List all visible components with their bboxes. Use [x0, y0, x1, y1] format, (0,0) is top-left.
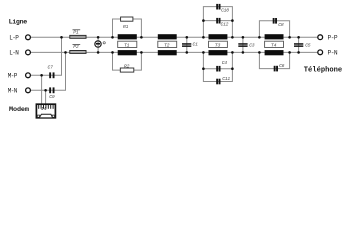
capacitor C6 loop: [259, 52, 289, 71]
svg-text:P-N: P-N: [328, 50, 338, 57]
capacitor C12 rung: [203, 18, 232, 27]
capacitor C3: [238, 37, 254, 52]
capacitor C1: [182, 37, 198, 52]
node T3 loop bottom-left: [202, 51, 205, 54]
fuse P2: [70, 44, 86, 53]
capacitor C9: [49, 87, 55, 100]
svg-text:P2: P2: [73, 44, 79, 50]
wire M-N to L-N branch: [31, 52, 66, 90]
terminal L-N: [9, 50, 30, 57]
wire M-P to L-P branch: [31, 37, 62, 75]
transformer T4: [265, 34, 284, 55]
svg-text:M-N: M-N: [8, 88, 18, 95]
node C4 left: [202, 67, 205, 70]
node C12 left: [202, 19, 205, 22]
svg-text:Modem: Modem: [9, 106, 29, 114]
svg-text:T3: T3: [215, 42, 221, 48]
svg-text:T2: T2: [164, 42, 170, 48]
capacitor C8 loop: [259, 18, 289, 37]
node C6 loop left: [258, 51, 261, 54]
terminal M-P: [8, 73, 31, 80]
wire modem pin2: [45, 90, 47, 104]
node C3 bottom: [242, 51, 245, 54]
wire modem pin1: [41, 75, 43, 104]
node R2 right: [140, 51, 143, 54]
node C1 bottom: [186, 51, 189, 54]
resistor R2: [113, 52, 142, 72]
node C12 right: [231, 19, 234, 22]
svg-text:T4: T4: [271, 42, 277, 48]
fuse P1: [70, 29, 86, 38]
node T3 loop top-right: [231, 36, 234, 39]
resistor R1: [113, 17, 142, 37]
transformer T2: [158, 34, 177, 55]
node L-N/M-N branch: [64, 51, 67, 54]
svg-text:P-P: P-P: [328, 34, 338, 41]
svg-text:R1: R1: [123, 24, 129, 30]
svg-text:T1: T1: [124, 42, 130, 48]
node modem pin2: [44, 89, 47, 92]
svg-text:C11: C11: [222, 76, 230, 82]
svg-text:C5: C5: [305, 42, 311, 48]
svg-text:C10: C10: [221, 8, 229, 14]
svg-text:C4: C4: [222, 60, 228, 66]
node R1 right: [140, 36, 143, 39]
node C3 top: [242, 36, 245, 39]
node modem pin1: [40, 74, 43, 77]
svg-text:C12: C12: [221, 21, 229, 27]
svg-text:J4: J4: [41, 106, 47, 112]
svg-text:C7: C7: [48, 64, 54, 70]
node R2 left: [111, 51, 114, 54]
node C8 right: [288, 36, 291, 39]
capacitor C4 rung: [203, 52, 232, 71]
svg-text:Téléphone: Téléphone: [304, 67, 342, 75]
svg-text:Ligne: Ligne: [9, 18, 28, 25]
svg-text:P1: P1: [73, 29, 79, 35]
svg-text:L-N: L-N: [9, 50, 19, 57]
svg-text:C3: C3: [249, 43, 255, 49]
svg-text:C1: C1: [193, 42, 199, 48]
node C4 right: [231, 67, 234, 70]
transformer T1: [118, 34, 137, 55]
node arrester top: [97, 36, 100, 39]
wire L-N bus: [31, 51, 318, 53]
terminal P-N: [318, 50, 338, 57]
terminal P-P: [318, 34, 338, 41]
terminal L-P: [9, 35, 30, 42]
transformer T3: [209, 34, 228, 55]
node C6 loop right: [288, 51, 291, 54]
node arrester bottom: [97, 51, 100, 54]
wire L-P bus: [31, 36, 318, 38]
capacitor C5: [294, 37, 311, 52]
surge arrester (gas tube): [95, 37, 105, 52]
node C5 top: [297, 36, 300, 39]
svg-text:C6: C6: [279, 63, 285, 69]
node T3 loop top-left: [202, 36, 205, 39]
node C8 left: [258, 36, 261, 39]
svg-text:M-P: M-P: [8, 73, 18, 80]
capacitor C7: [48, 64, 55, 78]
node C1 top: [186, 36, 189, 39]
capacitor C10 loop: [203, 4, 232, 37]
node T3 loop bottom-right: [231, 51, 234, 54]
svg-text:R2: R2: [124, 63, 130, 69]
svg-text:C8: C8: [278, 22, 284, 28]
node R1 left: [111, 36, 114, 39]
node L-P/M-P branch: [60, 36, 63, 39]
terminal M-N: [8, 88, 31, 95]
svg-text:L-P: L-P: [9, 35, 19, 42]
modem jack J4: [36, 104, 55, 118]
capacitor C11 rung: [203, 69, 232, 85]
node C5 bottom: [297, 51, 300, 54]
svg-text:C9: C9: [49, 94, 55, 100]
